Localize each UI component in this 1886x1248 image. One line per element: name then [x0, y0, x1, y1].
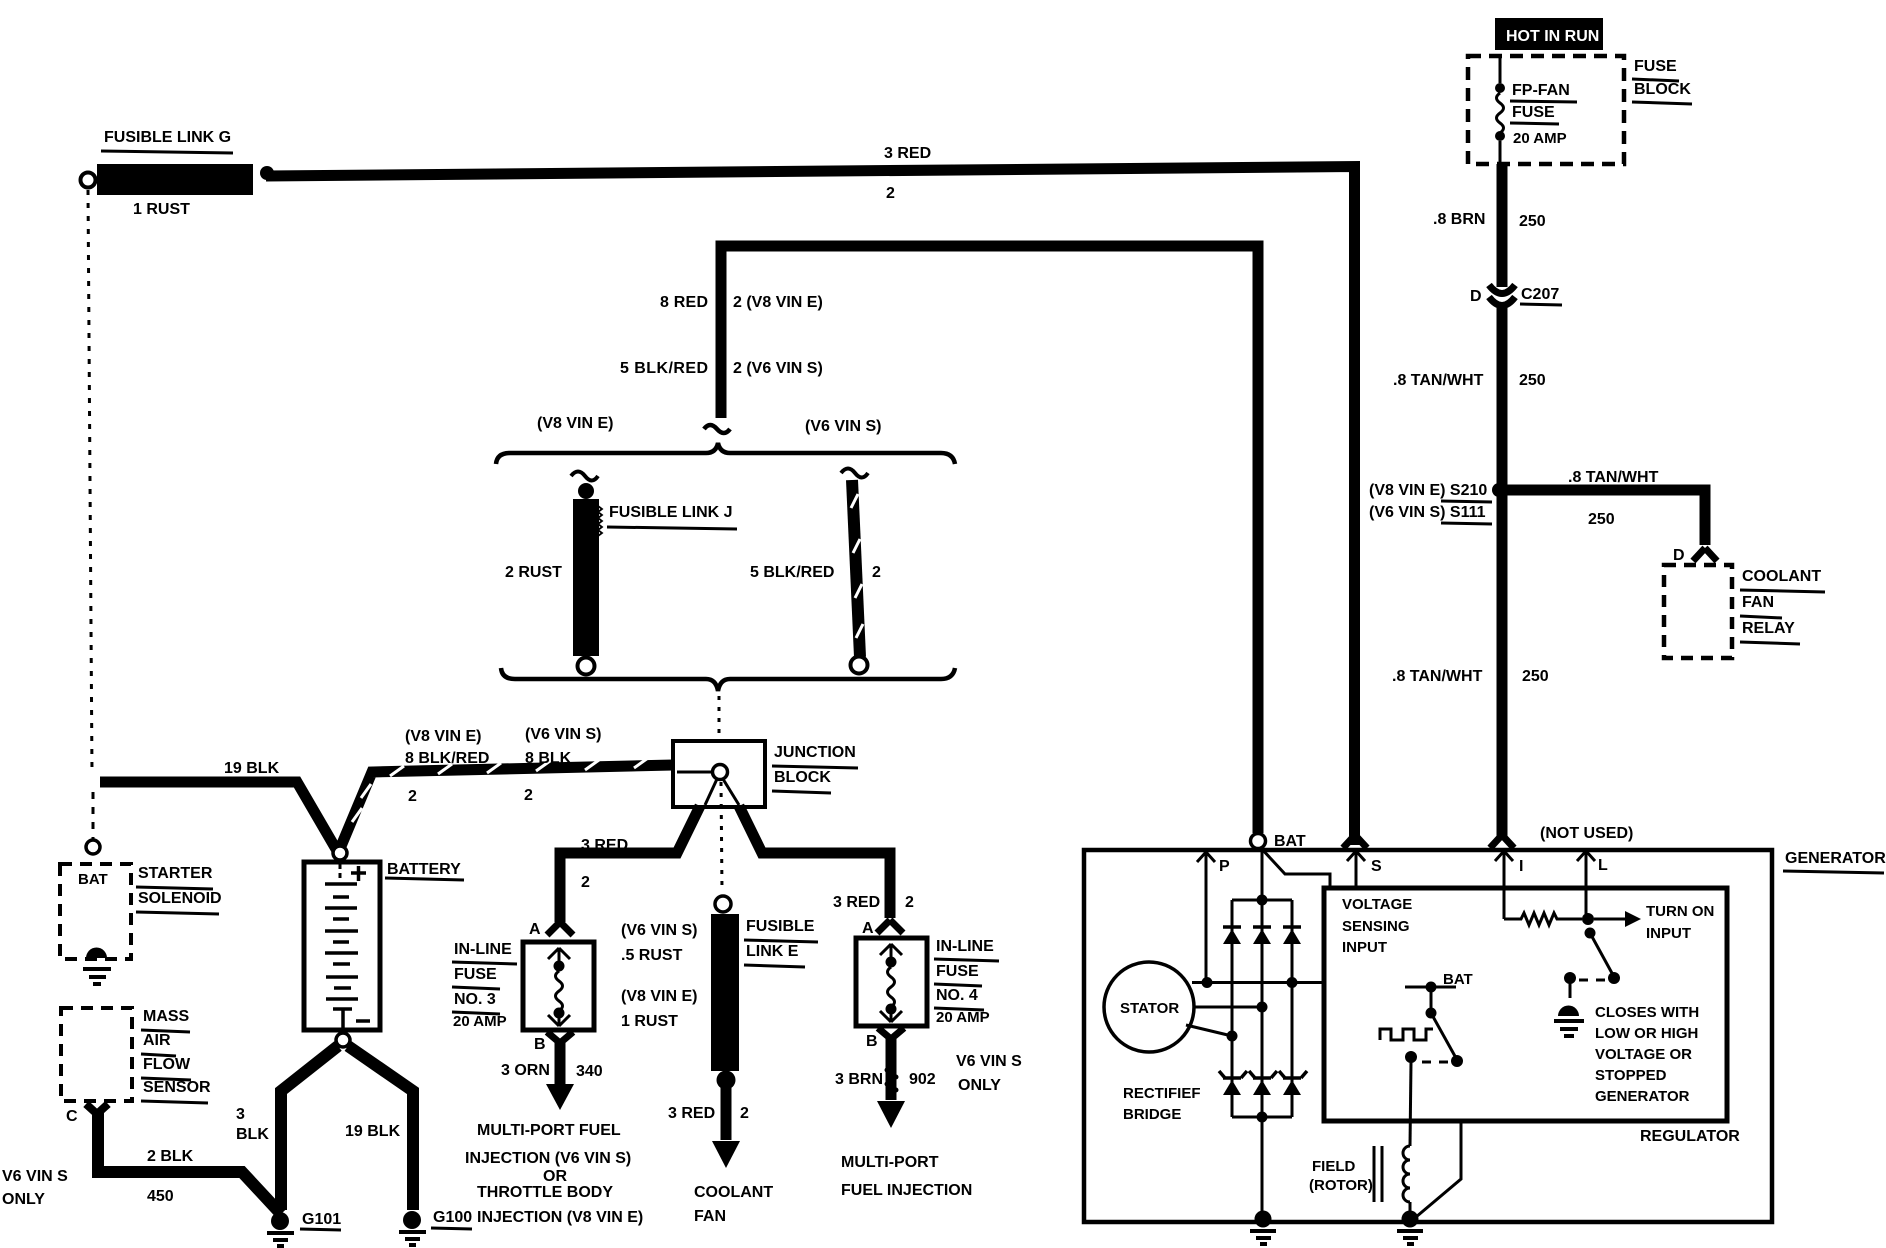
svg-text:5 BLK/RED: 5 BLK/RED — [620, 360, 708, 377]
svg-text:.8 TAN/WHT: .8 TAN/WHT — [1393, 372, 1484, 389]
label CLOSES WITH LOW OR HIGH VOLTAGE OR STOPPED GENERATOR — [1595, 1004, 1699, 1105]
in-line fuse no.4 — [856, 938, 927, 1026]
svg-text:VOLTAGE: VOLTAGE — [1342, 896, 1412, 913]
svg-text:FUSIBLE LINK G: FUSIBLE LINK G — [104, 129, 231, 146]
terminal P arrow — [1197, 852, 1215, 868]
svg-text:LINK E: LINK E — [746, 943, 799, 960]
svg-text:TURN ON: TURN ON — [1646, 903, 1714, 920]
svg-text:3 RED: 3 RED — [833, 894, 880, 911]
svg-text:INJECTION (V8 VIN E): INJECTION (V8 VIN E) — [477, 1209, 643, 1226]
svg-text:STARTER: STARTER — [138, 865, 213, 882]
terminal B flare fuse 3 — [547, 1032, 573, 1043]
svg-text:B: B — [534, 1036, 546, 1053]
dotted wire junction block to fusible link E — [721, 782, 722, 890]
ground (rectifier bridge) — [1250, 1211, 1276, 1245]
switch dashed gap — [1578, 979, 1605, 982]
terminal A flare fuse 4 — [877, 920, 903, 933]
switch pivot dot (L circuit) — [1585, 928, 1596, 939]
bridge left leg — [1231, 900, 1234, 1117]
svg-text:FIELD: FIELD — [1312, 1158, 1355, 1175]
label FUSIBLE LINK E — [744, 918, 818, 967]
svg-text:STATOR: STATOR — [1120, 1000, 1179, 1017]
ground (field) — [1397, 1211, 1423, 1245]
svg-text:COOLANT: COOLANT — [694, 1184, 773, 1201]
svg-text:FP-FAN: FP-FAN — [1512, 82, 1570, 99]
label C207 — [1520, 286, 1562, 305]
wire regulator to field ground (diagonal) — [1416, 1121, 1461, 1217]
svg-text:MASS: MASS — [143, 1008, 190, 1025]
svg-text:1 RUST: 1 RUST — [133, 201, 190, 218]
svg-text:2: 2 — [408, 788, 417, 805]
terminal S flare — [1343, 835, 1367, 848]
svg-text:(V6 VIN S): (V6 VIN S) — [805, 418, 881, 435]
wire coil to ground — [1409, 1202, 1412, 1218]
wire BAT circle to regulator top — [1260, 847, 1330, 889]
stator — [1104, 962, 1194, 1052]
svg-text:MULTI-PORT: MULTI-PORT — [841, 1154, 939, 1171]
svg-text:(V8 VIN E): (V8 VIN E) — [537, 415, 613, 432]
svg-text:1 RUST: 1 RUST — [621, 1013, 678, 1030]
label FUSE BLOCK — [1632, 58, 1692, 104]
svg-text:FUSIBLE LINK J: FUSIBLE LINK J — [609, 504, 733, 521]
label IN-LINE FUSE NO. 3 — [452, 941, 517, 1030]
fusible link G — [81, 164, 254, 195]
svg-text:MULTI-PORT FUEL: MULTI-PORT FUEL — [477, 1122, 621, 1139]
terminal D flare coolant fan relay — [1693, 548, 1717, 561]
svg-text:D: D — [1470, 288, 1482, 305]
svg-text:2: 2 — [581, 874, 590, 891]
svg-text:(V6 VIN S) S111: (V6 VIN S) S111 — [1369, 504, 1486, 521]
label VOLTAGE SENSING INPUT — [1342, 896, 1412, 956]
svg-text:LOW OR HIGH: LOW OR HIGH — [1595, 1025, 1698, 1042]
wire 8 BLK/RED crosshatch from battery to junction block — [339, 758, 673, 851]
wire 3 RED junction block to in-line fuse no.4 — [739, 806, 890, 918]
label BATTERY — [385, 861, 464, 880]
svg-text:GENERATOR: GENERATOR — [1595, 1088, 1690, 1105]
svg-text:SENSING: SENSING — [1342, 918, 1410, 935]
svg-text:2: 2 — [740, 1105, 749, 1122]
label (V6 VIN S) .5 RUST — [621, 922, 697, 964]
svg-text:GENERATOR: GENERATOR — [1785, 850, 1886, 867]
label 3 BLK — [236, 1106, 269, 1143]
svg-text:BRIDGE: BRIDGE — [1123, 1106, 1181, 1123]
svg-text:3 RED: 3 RED — [581, 837, 628, 854]
diode D1 (upper) — [1223, 927, 1241, 944]
svg-text:INPUT: INPUT — [1646, 925, 1691, 942]
wire 3 RED from fusible link G to generator S — [266, 167, 1355, 846]
label COOLANT FAN — [694, 1184, 773, 1225]
coolant fan relay — [1664, 565, 1732, 658]
svg-text:AIR: AIR — [143, 1032, 171, 1049]
svg-text:.8 TAN/WHT: .8 TAN/WHT — [1568, 469, 1659, 486]
zener diode Z3 (lower) — [1279, 1071, 1307, 1095]
label (V6 VIN S) S111 — [1369, 504, 1492, 524]
svg-text:.8 TAN/WHT: .8 TAN/WHT — [1392, 668, 1483, 685]
svg-text:20 AMP: 20 AMP — [453, 1013, 507, 1030]
label FP-FAN FUSE 20 AMP — [1510, 82, 1577, 147]
node BAT stub dot — [1426, 982, 1437, 993]
svg-text:NO. 4: NO. 4 — [936, 987, 978, 1004]
terminal B flare fuse 4 — [878, 1028, 904, 1039]
field rotor coil — [1403, 1146, 1410, 1202]
svg-text:.5 RUST: .5 RUST — [621, 947, 683, 964]
svg-text:3: 3 — [236, 1106, 245, 1123]
svg-text:8 BLK: 8 BLK — [525, 750, 572, 767]
label IN-LINE FUSE NO. 4 — [934, 938, 999, 1026]
svg-text:(V8 VIN E) S210: (V8 VIN E) S210 — [1369, 482, 1487, 499]
switch contact dot (field) — [1451, 1055, 1463, 1067]
in-line fuse no.3 — [523, 942, 594, 1030]
svg-text:A: A — [862, 920, 874, 937]
bottom brace — [501, 668, 955, 691]
svg-text:STOPPED: STOPPED — [1595, 1067, 1667, 1084]
svg-text:(V8 VIN E): (V8 VIN E) — [621, 988, 697, 1005]
svg-text:FUSE: FUSE — [1634, 58, 1677, 75]
svg-text:(V6 VIN S): (V6 VIN S) — [621, 922, 697, 939]
svg-text:IN-LINE: IN-LINE — [936, 938, 994, 955]
ground (switch) — [1554, 983, 1584, 1036]
battery — [304, 862, 380, 1030]
switch dashed gap (field) — [1420, 1061, 1448, 1064]
switch contact dot — [1608, 972, 1620, 984]
svg-text:BATTERY: BATTERY — [387, 861, 461, 878]
svg-text:450: 450 — [147, 1188, 174, 1205]
svg-text:(V6 VIN S): (V6 VIN S) — [525, 726, 601, 743]
wire BAT to bridge — [1261, 848, 1264, 900]
svg-text:3 ORN: 3 ORN — [501, 1062, 550, 1079]
square wave symbol — [1380, 1029, 1433, 1040]
svg-text:RELAY: RELAY — [1742, 620, 1795, 637]
svg-text:V6 VIN S: V6 VIN S — [2, 1168, 68, 1185]
ground G101 — [267, 1212, 294, 1246]
switch blade (L circuit) — [1590, 933, 1613, 975]
svg-text:REGULATOR: REGULATOR — [1640, 1128, 1740, 1145]
svg-text:8 BLK/RED: 8 BLK/RED — [405, 750, 489, 767]
node bottom bus dot — [1257, 1112, 1268, 1123]
stator phase wire 1 — [1192, 981, 1324, 984]
fusible link 5 BLK/RED squiggle top — [841, 469, 868, 478]
svg-text:P: P — [1219, 858, 1230, 875]
svg-text:C: C — [66, 1108, 78, 1125]
svg-text:3 RED: 3 RED — [884, 145, 931, 162]
bridge middle leg — [1261, 900, 1264, 1117]
svg-text:BLOCK: BLOCK — [1634, 81, 1691, 98]
svg-text:IN-LINE: IN-LINE — [454, 941, 512, 958]
svg-text:INJECTION (V6 VIN S): INJECTION (V6 VIN S) — [465, 1150, 631, 1167]
wire 5 BLK/RED (V6) slanted link — [851, 480, 868, 674]
svg-text:2 (V8 VIN E): 2 (V8 VIN E) — [733, 294, 823, 311]
wire 2 BLK from MAF to G101 — [98, 1113, 281, 1214]
wire bridge to ground — [1261, 1117, 1264, 1218]
wire 3 RED fusible link E to coolant fan — [712, 1085, 740, 1168]
node top bus dot — [1257, 895, 1268, 906]
wire .8 BRN fuse block to C207 — [1497, 164, 1508, 287]
label MULTI-PORT FUEL INJECTION — [841, 1154, 972, 1199]
label JUNCTION BLOCK — [772, 744, 858, 793]
svg-text:340: 340 — [576, 1063, 603, 1080]
squiggle end of wire above brace — [704, 425, 730, 433]
label RECTIFIER BRIDGE — [1123, 1085, 1201, 1123]
FP-FAN fuse — [1495, 58, 1505, 162]
svg-text:2: 2 — [886, 185, 895, 202]
svg-text:(ROTOR): (ROTOR) — [1309, 1177, 1373, 1194]
generator box — [1084, 850, 1772, 1222]
node phase 2 dot — [1257, 1002, 1268, 1013]
label GENERATOR — [1783, 850, 1886, 873]
wire field contact to field coil — [1410, 1062, 1411, 1146]
svg-text:2 (V6 VIN S): 2 (V6 VIN S) — [733, 360, 823, 377]
label V6 VIN S ONLY — [2, 1168, 68, 1208]
HOT IN RUN tag — [1495, 18, 1603, 50]
fuse block box — [1468, 56, 1624, 164]
top brace — [496, 443, 955, 464]
regulator box — [1324, 888, 1727, 1121]
svg-text:(NOT USED): (NOT USED) — [1540, 825, 1633, 842]
wire 19 BLK battery to G100 — [348, 1046, 413, 1210]
svg-text:SENSOR: SENSOR — [143, 1079, 211, 1096]
svg-text:BAT: BAT — [1274, 833, 1306, 850]
svg-text:FUSE: FUSE — [454, 966, 497, 983]
terminal I arrow — [1495, 851, 1513, 919]
svg-text:JUNCTION: JUNCTION — [774, 744, 856, 761]
svg-text:SOLENOID: SOLENOID — [138, 890, 222, 907]
mass air flow sensor — [61, 1008, 132, 1114]
svg-text:G101: G101 — [302, 1211, 341, 1228]
svg-text:L: L — [1598, 857, 1608, 874]
wire 8 RED / 5 BLK-RED from fusible links to generator BAT — [721, 246, 1258, 833]
svg-text:FUEL INJECTION: FUEL INJECTION — [841, 1182, 972, 1199]
wire .8 TAN/WHT splice to generator I — [1497, 490, 1508, 836]
svg-text:OR: OR — [543, 1168, 567, 1185]
terminal L arrow — [1577, 851, 1595, 919]
svg-text:ONLY: ONLY — [958, 1077, 1001, 1094]
label (V8 VIN E) S210 — [1369, 482, 1492, 502]
svg-text:FUSE: FUSE — [936, 963, 979, 980]
svg-text:VOLTAGE OR: VOLTAGE OR — [1595, 1046, 1692, 1063]
label MULTI-PORT FUEL INJECTION OR THROTTLE BODY — [465, 1122, 643, 1226]
svg-text:250: 250 — [1519, 213, 1546, 230]
zener diode Z1 (lower) — [1219, 1071, 1247, 1095]
svg-text:BLOCK: BLOCK — [774, 769, 831, 786]
diode D3 (upper) — [1283, 927, 1301, 944]
wire 3 BLK battery to G101 — [281, 1046, 338, 1210]
svg-text:250: 250 — [1588, 511, 1615, 528]
terminal A flare fuse 3 — [547, 922, 573, 935]
wire 3 RED junction block to in-line fuse no.3 — [560, 806, 700, 922]
wire 19 BLK from starter solenoid to battery — [100, 782, 336, 849]
terminal S arrow — [1347, 851, 1365, 888]
connector C207 — [1489, 285, 1515, 306]
svg-text:2 BLK: 2 BLK — [147, 1148, 194, 1165]
zener diode Z2 (lower) — [1249, 1071, 1277, 1095]
label MASS AIR FLOW SENSOR — [141, 1008, 211, 1103]
dashed wire from fusible link G down to starter solenoid — [86, 190, 100, 854]
rectifier bridge top bus — [1232, 899, 1292, 902]
dotted wire brace to junction block — [718, 696, 721, 740]
label G100 — [431, 1209, 472, 1229]
svg-text:S: S — [1371, 858, 1382, 875]
fusible link J squiggle top — [571, 472, 598, 481]
label V6 VIN S ONLY (fuse 4) — [956, 1053, 1022, 1094]
svg-text:2 RUST: 2 RUST — [505, 564, 562, 581]
svg-text:FAN: FAN — [694, 1208, 726, 1225]
fusible link J — [573, 483, 602, 675]
fusible link G label — [101, 129, 233, 153]
svg-text:20 AMP: 20 AMP — [936, 1009, 990, 1026]
fusible link E — [711, 896, 739, 1090]
label G101 — [300, 1211, 341, 1230]
field rotor core bars — [1374, 1146, 1382, 1202]
stator phase wire 3 — [1186, 1025, 1232, 1036]
svg-text:THROTTLE BODY: THROTTLE BODY — [477, 1184, 613, 1201]
switch left contact dot — [1564, 972, 1576, 984]
svg-text:3 BRN: 3 BRN — [835, 1071, 883, 1088]
node phase 3 dot — [1227, 1031, 1238, 1042]
label FUSIBLE LINK J — [607, 504, 737, 529]
label (V8 VIN E) 1 RUST — [621, 988, 697, 1030]
svg-text:5 BLK/RED: 5 BLK/RED — [750, 564, 834, 581]
label COOLANT FAN RELAY — [1740, 568, 1825, 644]
svg-text:I: I — [1519, 858, 1523, 875]
svg-text:B: B — [866, 1033, 878, 1050]
wire .8 TAN/WHT C207 to splice — [1497, 303, 1508, 490]
svg-text:(V8 VIN E): (V8 VIN E) — [405, 728, 481, 745]
wire P terminal line — [1205, 866, 1208, 982]
svg-text:FLOW: FLOW — [143, 1056, 191, 1073]
wire .8 TAN/WHT splice to coolant fan relay — [1502, 490, 1705, 545]
resistor I-L — [1504, 913, 1582, 925]
svg-text:ONLY: ONLY — [2, 1191, 45, 1208]
svg-text:HOT IN RUN: HOT IN RUN — [1506, 28, 1599, 45]
starter solenoid — [60, 864, 131, 984]
svg-text:RECTIFIEF: RECTIFIEF — [1123, 1085, 1201, 1102]
svg-text:FAN: FAN — [1742, 594, 1774, 611]
bridge right leg — [1291, 900, 1294, 1117]
svg-text:250: 250 — [1519, 372, 1546, 389]
svg-text:19 BLK: 19 BLK — [345, 1123, 401, 1140]
svg-text:C207: C207 — [1521, 286, 1559, 303]
node: junction dot after fusible link G — [260, 166, 274, 180]
node L junction dot — [1582, 913, 1594, 925]
svg-text:20 AMP: 20 AMP — [1513, 130, 1567, 147]
svg-text:COOLANT: COOLANT — [1742, 568, 1821, 585]
svg-text:19 BLK: 19 BLK — [224, 760, 280, 777]
svg-text:2: 2 — [905, 894, 914, 911]
node BAT terminal circle — [1251, 834, 1266, 849]
wire BAT dot down — [1430, 987, 1433, 1013]
node P junction dot — [1202, 977, 1213, 988]
svg-text:2: 2 — [524, 787, 533, 804]
svg-text:V6 VIN S: V6 VIN S — [956, 1053, 1022, 1070]
wire 3 ORN fuse 3 to injection — [546, 1043, 574, 1110]
switch pivot dot (field circuit) — [1426, 1008, 1437, 1019]
switch left contact dot (field) — [1405, 1051, 1417, 1063]
node: battery negative circle — [336, 1033, 350, 1047]
svg-text:FUSIBLE: FUSIBLE — [746, 918, 815, 935]
svg-text:3 RED: 3 RED — [668, 1105, 715, 1122]
wire 3 BRN fuse 4 to injection — [877, 1039, 905, 1128]
junction block — [673, 741, 765, 807]
svg-text:BLK: BLK — [236, 1126, 269, 1143]
svg-text:250: 250 — [1522, 668, 1549, 685]
node: battery positive circle — [333, 846, 347, 860]
svg-text:D: D — [1673, 547, 1685, 564]
ground G100 — [399, 1211, 426, 1245]
diode D2 (upper) — [1253, 927, 1271, 944]
svg-text:FUSE: FUSE — [1512, 104, 1555, 121]
node phase 1 / right leg dot — [1287, 977, 1298, 988]
splice S210/S111 — [1492, 483, 1506, 497]
svg-text:902: 902 — [909, 1071, 936, 1088]
BAT stub line — [1405, 986, 1456, 989]
svg-text:.8 BRN: .8 BRN — [1433, 211, 1485, 228]
turn on input arrow — [1594, 911, 1641, 927]
svg-text:BAT: BAT — [1443, 971, 1473, 988]
label FIELD (ROTOR) — [1309, 1158, 1373, 1194]
svg-text:INPUT: INPUT — [1342, 939, 1387, 956]
label STARTER SOLENOID — [136, 865, 222, 914]
svg-text:8 RED: 8 RED — [660, 294, 708, 311]
svg-text:2: 2 — [872, 564, 881, 581]
stator phase wire 2 — [1194, 1006, 1262, 1009]
switch blade (field circuit) — [1431, 1013, 1456, 1058]
svg-text:CLOSES WITH: CLOSES WITH — [1595, 1004, 1699, 1021]
svg-text:G100: G100 — [433, 1209, 472, 1226]
svg-text:BAT: BAT — [78, 871, 108, 888]
rectifier bridge bottom bus — [1232, 1116, 1292, 1119]
svg-text:A: A — [529, 921, 541, 938]
label TURN ON INPUT — [1646, 903, 1714, 942]
terminal I flare — [1490, 835, 1514, 848]
svg-text:NO. 3: NO. 3 — [454, 991, 496, 1008]
